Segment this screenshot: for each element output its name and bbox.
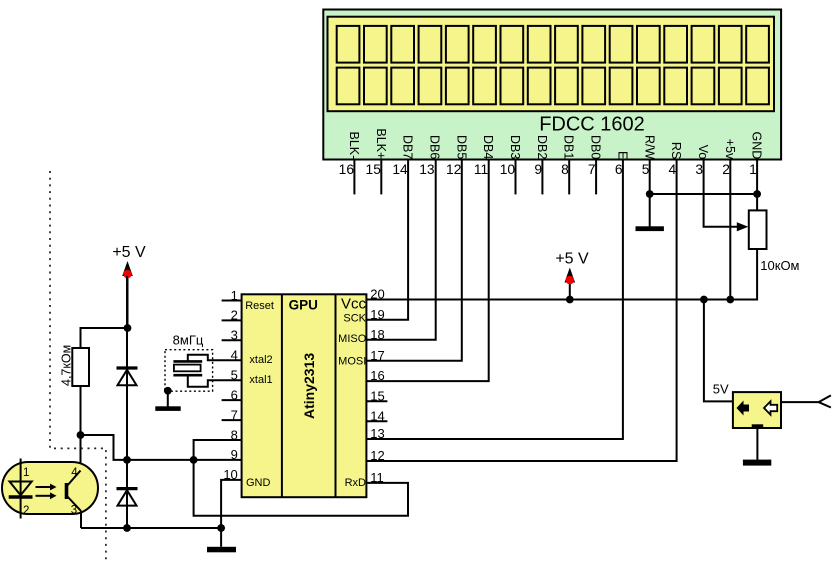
MCU left pin stubs 1,2,3,6,7 xyxy=(222,301,242,421)
diode D1 triangle xyxy=(118,370,137,385)
svg-text:14: 14 xyxy=(392,162,408,177)
svg-text:Vo: Vo xyxy=(696,145,710,160)
svg-text:+5 V: +5 V xyxy=(555,251,589,268)
MCU left pin numbers xyxy=(223,288,237,482)
svg-text:7: 7 xyxy=(588,162,596,177)
wire +5V to resistor top xyxy=(81,328,128,348)
svg-text:4: 4 xyxy=(71,467,78,479)
svg-text:DB0: DB0 xyxy=(589,135,603,159)
wire diode chain vertical xyxy=(126,276,128,528)
wire LCD E pin6 to MCU pin13 xyxy=(366,160,623,440)
wire rail branch down to 5V converter block xyxy=(704,300,733,402)
opto light arrow 1 xyxy=(36,486,51,488)
opto LED cathode bar xyxy=(9,495,33,499)
svg-text:GND: GND xyxy=(246,477,271,489)
wire LCD DB5 pin12 to MCU MOSI pin17 xyxy=(366,160,461,361)
svg-text:GPU: GPU xyxy=(289,298,318,313)
svg-text:12: 12 xyxy=(446,162,461,177)
svg-text:5: 5 xyxy=(642,162,650,177)
svg-text:MISO: MISO xyxy=(338,333,367,345)
crystal X1 dotted shield box xyxy=(165,350,213,392)
5V block bottom pin tick xyxy=(752,424,764,428)
svg-text:+5 V: +5 V xyxy=(112,244,146,261)
wire MCU pin9 long run to optocoupler collector junction xyxy=(81,435,242,460)
node junction GND-wire xyxy=(753,190,761,198)
crystal top plate xyxy=(173,360,202,363)
power symbol +5 V (left) xyxy=(112,244,146,328)
wire 5V block to ground xyxy=(756,428,758,460)
svg-text:3: 3 xyxy=(71,504,77,516)
svg-text:MOSI: MOSI xyxy=(338,356,366,368)
LCD module LCD1 FDCC 1602 body xyxy=(323,10,781,160)
potentiometer wiper arrowhead xyxy=(737,222,749,231)
svg-text:R/W: R/W xyxy=(642,135,656,160)
svg-text:10: 10 xyxy=(500,162,516,177)
wire resistor bottom to opto collector xyxy=(80,386,82,471)
wire LCD R/W pin5 down to ground xyxy=(649,160,651,227)
wire LCD Vo pin3 to potentiometer wiper xyxy=(704,160,738,227)
diode D1 cathode bar xyxy=(117,366,138,369)
svg-text:BLK+: BLK+ xyxy=(374,128,388,159)
node junction pin2 on rail xyxy=(726,296,734,304)
wire LCD +5v pin2 down to +5V rail xyxy=(729,160,731,300)
svg-text:8мГц: 8мГц xyxy=(173,333,204,348)
svg-text:BLK-: BLK- xyxy=(347,132,361,160)
svg-text:17: 17 xyxy=(370,348,384,363)
MCU section divider left xyxy=(281,294,283,497)
node junction shield to ground xyxy=(164,387,172,395)
svg-text:16: 16 xyxy=(339,162,355,177)
svg-text:Vcc: Vcc xyxy=(341,296,367,313)
svg-text:DB2: DB2 xyxy=(535,135,549,159)
LCD pin wires: short stubs pins 16,15,10,9,8,7 xyxy=(354,160,596,195)
svg-text:16: 16 xyxy=(370,368,384,383)
node junction diode wire bottom xyxy=(123,524,131,532)
MCU right pin numbers xyxy=(370,287,384,485)
svg-text:2: 2 xyxy=(23,505,29,517)
svg-text:RxD: RxD xyxy=(345,477,366,489)
svg-text:3: 3 xyxy=(695,162,703,177)
svg-text:Reset: Reset xyxy=(245,300,274,312)
wire junction to ground symbol xyxy=(220,528,222,547)
wire shield to ground xyxy=(167,391,169,407)
node junction 5V-block branch on rail xyxy=(700,296,708,304)
wire +5V rail from MCU Vcc pin20 to potentiometer bottom xyxy=(366,249,757,300)
wire MCU GND pin10 down xyxy=(221,480,242,528)
ground under MCU GND xyxy=(207,547,236,553)
ground under R/W xyxy=(636,226,664,231)
svg-text:5V: 5V xyxy=(713,381,729,396)
ground under crystal xyxy=(155,406,180,411)
black arrow inside 5V block xyxy=(737,401,750,416)
power symbol +5 V (middle) xyxy=(555,251,589,300)
svg-text:3: 3 xyxy=(231,328,238,343)
wire 5V block input to connector xyxy=(781,401,819,403)
node junction resistor top xyxy=(124,324,132,332)
svg-text:Atiny2313: Atiny2313 xyxy=(301,353,317,419)
svg-text:13: 13 xyxy=(419,162,435,177)
wire LCD RS pin4 to MCU pin12 xyxy=(366,160,676,462)
wire LCD DB7 pin14 to MCU SCK pin19 xyxy=(366,160,408,320)
wire MCU pin8 to MCU pin11 RxD xyxy=(194,440,408,516)
opto transistor base bar xyxy=(65,483,69,499)
opto light arrow 2 xyxy=(36,495,51,497)
diode D2 cathode bar xyxy=(117,487,138,490)
opto pin labels xyxy=(23,467,78,517)
svg-text:xtal2: xtal2 xyxy=(249,354,272,366)
svg-text:15: 15 xyxy=(370,388,384,403)
crystal body xyxy=(174,365,201,372)
opto LED pin wire xyxy=(20,459,22,519)
svg-text:DB5: DB5 xyxy=(454,135,468,159)
svg-text:xtal1: xtal1 xyxy=(249,374,272,386)
svg-text:FDCC 1602: FDCC 1602 xyxy=(539,114,645,136)
svg-text:13: 13 xyxy=(370,426,384,441)
node junction +5V arrow on rail xyxy=(566,296,574,304)
MCU U1 Atiny2313 body xyxy=(242,294,367,497)
wire LCD GND pin1 down to potentiometer top xyxy=(756,160,758,211)
LCD pin name labels (rotated) xyxy=(347,128,764,160)
MCU right pin stubs 15,14 xyxy=(366,401,387,421)
MCU pin name labels xyxy=(245,300,367,489)
svg-text:1: 1 xyxy=(749,162,757,177)
crystal bottom plate xyxy=(173,374,202,377)
svg-text:DB1: DB1 xyxy=(562,135,576,159)
svg-text:8: 8 xyxy=(561,162,569,177)
wire crystal top plate to MCU xtal2 pin4 xyxy=(188,355,242,362)
node junction R/W-wire xyxy=(646,190,654,198)
svg-text:11: 11 xyxy=(474,162,488,177)
ground under 5V block xyxy=(743,460,771,466)
svg-text:14: 14 xyxy=(370,408,384,423)
node junction resistor bottom / pin9 branch xyxy=(77,431,85,439)
opto emitter pin wire down xyxy=(80,511,82,528)
LCD pin numbers 16..1 xyxy=(339,162,757,177)
svg-text:6: 6 xyxy=(615,162,623,177)
svg-text:12: 12 xyxy=(370,448,384,463)
wire bottom ground run (opto emitter to GND pin) xyxy=(81,527,221,529)
diode D2 triangle xyxy=(118,490,137,505)
optocoupler U3 body xyxy=(2,462,98,514)
wire LCD DB6 pin13 to MCU MISO pin18 xyxy=(366,160,435,340)
svg-text:+5v: +5v xyxy=(723,139,737,160)
dotted isolation boundary xyxy=(50,171,106,562)
opto transistor emitter slant xyxy=(67,496,82,512)
svg-text:9: 9 xyxy=(534,162,542,177)
svg-text:2: 2 xyxy=(231,308,238,323)
svg-text:DB6: DB6 xyxy=(428,135,442,159)
potentiometer R2 body xyxy=(749,210,767,249)
resistor R1 4.7kOm body xyxy=(72,348,89,386)
svg-text:DB7: DB7 xyxy=(401,135,415,159)
wire crystal bottom plate to MCU xtal1 pin5 xyxy=(188,375,242,387)
connector chevron input xyxy=(819,395,831,407)
svg-text:4,7кОм: 4,7кОм xyxy=(60,345,74,386)
svg-text:6: 6 xyxy=(231,387,238,402)
wire LCD DB4 pin11 to MCU pin16 xyxy=(366,160,488,382)
svg-text:20: 20 xyxy=(370,287,384,302)
opto LED triangle xyxy=(10,482,32,496)
svg-text:1: 1 xyxy=(23,467,29,479)
svg-text:18: 18 xyxy=(370,327,384,342)
node junction pin9/pin8 cross xyxy=(190,456,198,464)
5V converter block U2 xyxy=(733,392,781,428)
svg-text:1: 1 xyxy=(231,288,238,303)
node junction GND wire xyxy=(217,524,225,532)
wire R/W to GND pin1 horizontal xyxy=(650,193,757,195)
svg-text:RS: RS xyxy=(669,142,683,159)
opto transistor collector slant xyxy=(67,471,81,487)
node junction diode wire pin9 row xyxy=(123,456,131,464)
svg-text:15: 15 xyxy=(366,162,382,177)
svg-text:E: E xyxy=(615,151,629,159)
svg-text:19: 19 xyxy=(370,307,384,322)
svg-text:DB4: DB4 xyxy=(481,135,495,159)
svg-text:4: 4 xyxy=(669,162,677,177)
white arrow inside 5V block xyxy=(764,401,777,414)
svg-text:10кОм: 10кОм xyxy=(760,258,799,273)
svg-text:SCK: SCK xyxy=(343,313,366,325)
svg-text:DB3: DB3 xyxy=(508,135,522,159)
svg-text:2: 2 xyxy=(722,162,730,177)
svg-text:GND: GND xyxy=(750,132,764,160)
svg-text:7: 7 xyxy=(231,407,238,422)
MCU section divider right xyxy=(335,294,337,497)
LCD character cells 2x16 xyxy=(337,26,769,104)
